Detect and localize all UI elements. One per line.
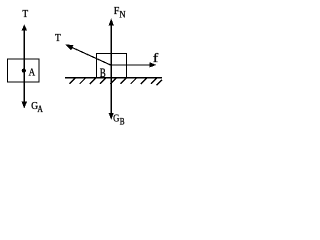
svg-text:B: B [120, 118, 125, 128]
svg-text:f: f [153, 50, 159, 65]
wire: friction f horizontal shaft [112, 64, 151, 66]
svg-text:A: A [37, 105, 43, 115]
svg-text:N: N [119, 11, 125, 21]
arrowhead: tension T diagonal arrow tip [65, 45, 73, 51]
svg-text:T: T [55, 32, 61, 44]
hatching stroke 1 [69, 78, 75, 84]
hatching stroke 7 [131, 78, 137, 84]
arrowhead: gravity G_B down arrow [109, 113, 114, 120]
wire: F_N / G_B vertical shaft through block B [110, 25, 112, 114]
arrowhead: normal force F_N up arrow [109, 18, 114, 25]
svg-text:A: A [29, 66, 36, 78]
arrowhead: gravity G_A down arrow [22, 102, 27, 109]
hatching stroke 2 [80, 78, 86, 84]
node: center dot of block A [22, 69, 26, 73]
block A box [8, 59, 39, 82]
hatching stroke 10 (clipped at line end) [156, 80, 162, 86]
svg-text:T: T [22, 8, 28, 20]
wire: rope T diagonal line from center of B [71, 47, 112, 66]
svg-text:G: G [113, 113, 119, 125]
hatching stroke 6 [120, 78, 126, 84]
hatching stroke 5 [110, 78, 116, 84]
wire: left figure vertical line through block A [23, 26, 25, 108]
arrowhead: friction f arrow tip [149, 62, 156, 67]
ground surface line [65, 77, 162, 79]
hatching stroke 8 [141, 78, 147, 84]
block B box [97, 54, 127, 78]
hatching stroke 9 [151, 78, 157, 84]
hatching stroke 4 [100, 78, 106, 84]
arrowhead: tension T up arrow (left figure) [22, 24, 27, 30]
hatching stroke 3 [90, 78, 96, 84]
